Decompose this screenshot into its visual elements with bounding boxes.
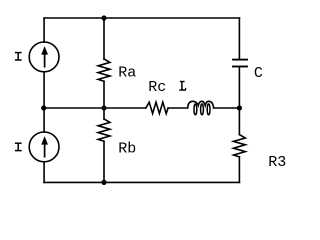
svg-text:Rb: Rb bbox=[118, 141, 136, 158]
svg-text:Ra: Ra bbox=[118, 64, 136, 81]
svg-text:C: C bbox=[254, 65, 263, 82]
svg-text:Rc: Rc bbox=[148, 79, 166, 96]
svg-text:R3: R3 bbox=[268, 154, 286, 171]
